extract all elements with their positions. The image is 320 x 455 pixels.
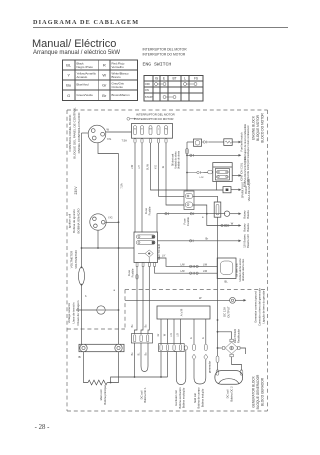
arrow fuel sender [232,141,238,143]
svg-text:INTERRUPTOR DO MOTOR: INTERRUPTOR DO MOTOR [143,53,186,57]
svg-text:Conexión a tierra del generado: Conexión a tierra del generador [258,288,262,326]
panel rectifier box [134,232,158,263]
svg-text:VOLTMETER: VOLTMETER [70,251,74,268]
ground wire [125,299,230,301]
oil pressure unit box [194,139,202,146]
svg-text:Bobina de campo: Bobina de campo [197,387,201,408]
svg-text:7.5A: 7.5A [120,183,124,189]
AVR output wires [160,319,162,344]
panel terminal circle left [79,344,124,351]
svg-text:Fusible: Fusible [130,268,134,277]
svg-text:ignition coil: ignition coil [68,213,72,228]
svg-text:Batería 12V: Batería 12V [246,234,250,248]
svg-text:OUTPUT: OUTPUT [226,306,230,318]
svg-text:Green/Verde: Green/Verde [77,93,94,97]
svg-text:- 28 -: - 28 - [35,424,50,431]
wire socket2 right pin to bus [106,221,119,223]
svg-text:Bateria: Bateria [246,223,250,232]
svg-text:GENERATOR BLOCK: GENERATOR BLOCK [252,375,256,407]
fuse connector pair on battery wire [165,212,194,215]
fuel sender element [225,141,231,143]
connector pair oil wire 2 [189,272,198,275]
dc coil 2 stadium [215,371,243,385]
START row contacts E-BT [163,96,176,99]
svg-text:Unidade de alerta: Unidade de alerta [178,150,181,169]
svg-text:E: E [163,77,165,81]
svg-text:Unidad de alerta: Unidad de alerta [175,151,178,169]
wire IG down to rectifier [134,143,136,233]
dc coil 2 inner arc [219,379,240,384]
node fuse wire crossing [217,319,219,321]
svg-text:Cinzento: Cinzento [112,85,124,89]
svg-text:DC coil: DC coil [139,390,143,399]
svg-text:BLOCO DO MOTOR: BLOCO DO MOTOR [261,113,265,143]
battery wire 2 [207,214,239,226]
stadium pins [216,370,243,375]
colour codes column 1 [66,63,72,99]
terminal ring right [115,344,122,351]
main coil winding [88,380,107,385]
bridge rectifier body [225,342,238,354]
dc coil 1 hairpin [141,343,148,372]
svg-text:Blue/Azul: Blue/Azul [77,83,90,87]
svg-text:BLOCO GERADOR: BLOCO GERADOR [261,377,265,406]
svg-text:BL/W: BL/W [147,163,150,170]
svg-text:Bobina principal: Bobina principal [103,385,107,405]
labels below three pin [131,352,148,356]
engine switch row labels [145,82,154,99]
wire labels above connector [131,324,148,328]
battery wire 3 [158,240,239,242]
svg-text:BT: BT [172,77,176,81]
field coil hairpin [194,360,206,384]
svg-text:Y/G: Y/G [155,165,158,169]
wire FS to fuel level switch [166,143,184,205]
feeder pill connector [186,149,189,155]
junction nodes left [118,221,120,223]
wire to oil alert lower 2 [155,267,218,274]
header rule [33,26,288,28]
node battery wire [206,213,208,215]
svg-text:L/Y: L/Y [138,165,141,169]
svg-text:FS: FS [194,77,198,81]
svg-text:ENGINE BLOCK: ENGINE BLOCK [252,115,256,140]
fuse holder vertical [214,202,221,217]
wire ignition coil input [204,172,208,174]
svg-text:A.V.R: A.V.R [180,308,184,316]
svg-text:L/Y: L/Y [162,256,166,258]
wire socket1 right pin to engine switch [106,131,132,133]
voltmeter [79,267,85,284]
spark plug electrode [226,189,229,192]
wire socket1 left to bus [82,132,89,134]
arrow battery 2 [239,224,242,227]
svg-text:Fuse: Fuse [144,208,148,214]
colour names column 1 [77,62,97,98]
ignition coil input pill [208,170,213,174]
svg-text:Y/G: Y/G [108,216,112,220]
wire L to oil alert unit [159,143,185,196]
svg-text:INTERRUPTOR DO MOTOR: INTERRUPTOR DO MOTOR [136,117,173,121]
four pin connector pills [160,345,182,351]
wire E down to rectifier [141,143,143,233]
svg-text:Ligação de terra do gerador: Ligação de terra do gerador [262,290,266,323]
rectifier connector row 1 [136,235,155,239]
wire BT down then right to spark plug [151,143,217,190]
colour code table frame [63,60,138,101]
svg-text:Main coil: Main coil [99,389,103,400]
svg-text:Brown/Marron: Brown/Marron [112,93,131,97]
wire rectifier to oil unit 1 [158,258,218,266]
svg-text:Rectificador: Rectificador [236,329,240,343]
svg-text:Br: Br [79,355,82,359]
battery wire 1 [157,214,225,233]
svg-text:OFF: OFF [145,82,151,86]
svg-text:Bobina de ignición: Bobina de ignición [72,209,76,233]
ground ring [230,297,236,303]
wire feeder to oil unit box [187,141,194,143]
bus pill connector [216,356,219,362]
arrow battery 1 [230,213,239,215]
svg-text:PAINEL CONTROLO BLOCO: PAINEL CONTROLO BLOCO [77,112,81,153]
generator return wire [111,377,168,383]
wire colour labels under switch [131,163,165,170]
engine switch table frame [144,76,203,102]
svg-text:Br: Br [206,236,209,240]
rectifier connector row 2 [136,241,155,245]
svg-text:DC coil: DC coil [226,389,230,398]
arrow ignition coil out [232,175,238,177]
svg-text:Branco: Branco [112,75,122,79]
three pin connector [131,334,152,343]
rectifier bottom pins [136,263,155,267]
svg-text:field coil: field coil [193,393,197,403]
svg-text:Chave de voltagem: Chave de voltagem [76,300,80,325]
svg-text:IG: IG [155,77,159,81]
voltmeter nodes [81,266,83,268]
svg-text:BOBINA IGNAÇÃO: BOBINA IGNAÇÃO [76,208,81,234]
AVR wire labels [157,333,205,339]
connector on fuel wire [190,154,194,157]
svg-text:ENG SWITCH: ENG SWITCH [143,62,172,68]
svg-text:Bateria: Bateria [246,210,250,219]
terminal ring left [80,344,87,351]
field leg connectors pills [193,344,208,350]
AVR box [157,306,210,319]
wires below four pin connector [160,352,162,377]
svg-text:Fusible: Fusible [148,206,152,215]
svg-text:230V: 230V [74,186,78,195]
svg-text:Unidade alerta óleo: Unidade alerta óleo [241,258,245,281]
switch terminal names [134,126,168,135]
svg-text:Oil alert unit: Oil alert unit [172,154,175,167]
wire to fuel sender [209,141,224,143]
three pin connector pills [133,335,148,342]
svg-text:7.5A: 7.5A [122,139,128,143]
ignition coil inner frame [215,169,229,181]
svg-text:L/R: L/R [170,333,173,337]
svg-text:L/B: L/B [177,333,180,337]
node bridge feed [217,331,219,333]
OFF row contacts L-FS [184,83,198,86]
wire rectifier feed left [82,247,135,249]
wire pill to stadium pin [217,362,219,370]
svg-text:Vermelho: Vermelho [112,65,125,69]
colour codes column 2 [102,63,107,99]
ignition coil winding 2 [217,175,229,178]
socket 2 [90,214,106,230]
OFF row contacts IG-E [155,83,167,86]
colour names column 2 [112,62,131,98]
svg-text:generador: generador [207,361,211,373]
svg-text:Amarelo: Amarelo [77,75,88,79]
connector pair oil wire 1 [189,265,198,268]
ignition coil assembly outer [213,163,232,182]
svg-text:BLOQUE MOTOR: BLOQUE MOTOR [256,114,260,141]
connector on coil feed [187,171,204,174]
svg-text:Interruptor nível combustível: Interruptor nível combustível [246,125,250,158]
wire bus down to pill [217,332,219,356]
svg-text:Y/G: Y/G [107,137,111,141]
engine switch terminal headers [155,77,198,81]
arrow spark plug [231,189,239,191]
connector after oil unit [202,141,210,144]
svg-text:BL: BL [225,280,229,284]
fuse holder pill [216,204,219,215]
svg-text:Bu: Bu [66,83,71,88]
wire fuse holder down [217,217,219,332]
svg-text:Bobina excitación: Bobina excitación [178,387,182,409]
bridge terminals [222,339,240,357]
voltage selector switch [97,306,105,314]
exciter leg links [174,351,176,353]
svg-text:VOLTIMETRO: VOLTIMETRO [74,249,78,268]
svg-text:INTERRUPTOR DEL MOTOR: INTERRUPTOR DEL MOTOR [143,48,188,52]
wire bridge bottom to stadium [232,357,242,371]
svg-text:Gr: Gr [157,333,160,336]
wire bridge right stub [240,348,246,354]
svg-text:BL: BL [66,63,72,68]
svg-text:START: START [145,95,154,99]
exciter hairpin [176,352,186,385]
svg-text:Gr: Gr [102,83,107,88]
engine switch body [132,124,173,139]
wire connector to fuse holder [193,196,218,202]
oil alert lower pill [220,261,233,275]
wire selector left [76,309,97,311]
svg-text:G: G [67,93,70,98]
svg-text:ON: ON [145,88,149,92]
wire selector right to bus [105,309,118,311]
svg-text:Fuse: Fuse [127,270,131,276]
svg-text:Voltage selector: Voltage selector [67,303,71,324]
svg-text:Bobina DC 2: Bobina DC 2 [229,386,233,402]
twin pin connector box [184,191,194,210]
wire socket2 bottom [97,230,99,248]
switch terminal pins [134,139,167,143]
spark plug box [223,187,231,193]
wire bridge left to bus [218,347,223,349]
socket 1 [88,125,106,143]
oil pressure unit pill [195,141,200,145]
rectifier diode bridge [138,250,153,263]
svg-text:Excitator coil: Excitator coil [174,390,178,406]
ignition coil winding 1 [217,171,229,174]
svg-text:Br: Br [102,93,107,98]
svg-text:Y: Y [67,73,70,78]
arrow battery 3 [239,240,242,243]
svg-text:W: W [102,73,106,78]
svg-text:Generator connect ground: Generator connect ground [254,291,258,323]
left bus wire (voltmeter branch) [81,133,83,267]
node ignition feed [186,172,188,174]
svg-text:Negro /Preto: Negro /Preto [77,65,94,69]
fuel level wire [187,154,239,156]
arrow fuel wire [239,154,242,157]
svg-text:BLOQUE DEL PANEL DE CONTROL: BLOQUE DEL PANEL DE CONTROL [72,107,76,159]
engine switch connector mark [127,117,136,120]
wire coil to spark plug [217,182,224,191]
wire socket1 bottom to main vertical [98,143,119,154]
svg-text:Fuse: Fuse [182,218,186,224]
svg-text:Bobina excitação: Bobina excitação [182,387,186,408]
svg-text:L: L [184,77,186,81]
node labels group placeholder [67,107,266,409]
wire connector to battery line [193,205,207,214]
svg-text:BLOQUE GENERADOR: BLOQUE GENERADOR [256,374,260,409]
oil unit feeder vertical [186,142,188,191]
svg-text:R: R [103,63,106,68]
svg-text:Bobina indução: Bobina indução [200,388,204,407]
four pin connector [159,344,185,352]
svg-text:Manual/ Eléctrico: Manual/ Eléctrico [32,38,116,50]
connector pair battery wire 3 [189,240,193,243]
rectifier output wires down [135,267,138,334]
svg-text:Fusible: Fusible [186,217,190,226]
arrow ground [235,299,243,301]
wires below three pin connector [134,343,136,377]
wire fuse bus to bridge [218,332,232,339]
control panel / engine / generator dashed boundaries [67,110,268,411]
svg-text:IG: IG [162,166,165,169]
wire left ring down to main coil [84,352,89,383]
svg-text:DIAGRAMA DE CABLAGEM: DIAGRAMA DE CABLAGEM [33,19,139,26]
field leg diamonds [192,354,208,360]
main vertical bus [118,154,120,345]
node avr return [160,376,162,378]
svg-text:L/W: L/W [131,164,134,169]
svg-text:Arranque manual / eléctrico 5k: Arranque manual / eléctrico 5kW [33,50,120,56]
wire main coil right leg [107,352,118,383]
exciter top pill [185,346,188,350]
wire voltmeter to panel circle [81,285,83,345]
svg-text:Bobina DC 1: Bobina DC 1 [143,387,147,403]
connectors on battery wire 2 [221,224,229,227]
charge indicator [224,211,229,216]
twin pin connector pills [185,193,192,207]
connector pill on rectifier wire 1 [136,275,138,280]
fuel level sender box [224,139,232,146]
svg-text:CONTROL PANEL BLOCK: CONTROL PANEL BLOCK [68,114,72,152]
ignition coil header line [213,166,232,168]
oil alert lower unit box [217,258,236,279]
svg-text:Llave de tensión: Llave de tensión [71,302,75,323]
